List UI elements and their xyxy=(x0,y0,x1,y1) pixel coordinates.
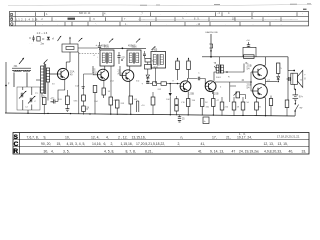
svg-text:10K: 10K xyxy=(166,99,170,101)
svg-text:1.: 1. xyxy=(46,12,48,16)
junction dots on rail xyxy=(27,113,28,114)
svg-text:8, 7, 8,: 8, 7, 8, xyxy=(126,149,136,153)
transistor Q3 xyxy=(122,70,134,82)
wire Q3 base xyxy=(120,66,122,76)
B plus rail wire xyxy=(202,56,288,58)
svg-text:12, 4,: 12, 4, xyxy=(91,135,100,139)
svg-text:sw: sw xyxy=(300,108,303,110)
svg-text:5001: 5001 xyxy=(216,77,222,79)
svg-text:2,: 2, xyxy=(111,142,114,146)
bias pot VR2 xyxy=(236,92,240,98)
legend capacitor symbol xyxy=(33,36,35,39)
battery B1 xyxy=(294,90,296,95)
transistor Q1 xyxy=(57,68,68,79)
driver transformer T5 xyxy=(218,65,220,74)
wire T1 secondary to Q1 base xyxy=(50,73,58,75)
resistor R11a xyxy=(175,99,178,105)
resistor R16 xyxy=(212,99,215,107)
transistor Q4 xyxy=(180,81,191,92)
svg-text:-: - xyxy=(253,12,254,15)
svg-text:41,: 41, xyxy=(201,142,206,146)
svg-text:4, 5, 8,: 4, 5, 8, xyxy=(104,149,114,153)
wire AGC box to C6 xyxy=(78,47,98,49)
variable capacitor C1a xyxy=(20,93,22,98)
oscillator coil T1 secondary winding xyxy=(46,68,49,82)
svg-text:6,: 6, xyxy=(104,142,107,146)
svg-text:24, 19,19,2w,: 24, 19,19,2w, xyxy=(239,149,259,153)
resistor R21 xyxy=(285,100,289,108)
dial scale row 3 marks xyxy=(34,22,36,26)
transistor Q7 xyxy=(253,84,268,99)
node terminal A xyxy=(5,85,7,87)
adjustment arrow T2 xyxy=(109,39,112,42)
capacitor C5 xyxy=(52,100,54,104)
wire osc coil tap xyxy=(26,73,28,88)
svg-text:2 , 12,: 2 , 12, xyxy=(118,135,127,139)
earphone jack J1 xyxy=(210,34,212,57)
wire output pair join xyxy=(264,78,266,86)
capacitor C17 under Q7 xyxy=(269,99,272,106)
volume wire row xyxy=(150,83,153,85)
capacitor C12 coupling xyxy=(153,82,157,86)
resistor R11b xyxy=(175,105,178,111)
svg-text:C: C xyxy=(14,141,19,148)
variable capacitor C1b xyxy=(29,98,31,103)
svg-text:90, 20,: 90, 20, xyxy=(41,142,51,146)
IF transformer T3 xyxy=(127,50,141,66)
ground symbol xyxy=(65,108,69,110)
wire Q3 emitter xyxy=(129,80,131,96)
detector diode D1 xyxy=(146,75,149,78)
svg-text:. . .: . . . xyxy=(81,11,85,14)
legend arrow symbol xyxy=(58,37,61,42)
capacitor C11 marks xyxy=(146,81,149,82)
thermistor box below rail xyxy=(203,117,209,124)
svg-text:. .: . . xyxy=(275,18,277,21)
svg-text:9,: 9, xyxy=(44,135,47,139)
resistor R8 with ground xyxy=(115,100,119,108)
svg-text:8 . 9 .: 8 . 9 . xyxy=(194,18,200,21)
wire driver row xyxy=(215,81,251,83)
svg-text:8,21,: 8,21, xyxy=(145,149,153,153)
resistor R15 xyxy=(201,99,204,107)
svg-text:15,: 15, xyxy=(57,142,62,146)
svg-text:. .: . . xyxy=(143,18,145,21)
resistor R19 xyxy=(244,55,255,59)
strip corner mark xyxy=(303,8,307,10)
capacitor C4b xyxy=(82,106,86,112)
svg-text:301: 301 xyxy=(14,65,19,68)
svg-text:1 , 3,: 1 , 3, xyxy=(239,132,246,136)
svg-text:41: 41 xyxy=(198,149,202,153)
wire bypass vertical xyxy=(83,74,85,95)
svg-text:1 .: 1 . xyxy=(125,23,128,26)
wire T1 to gang xyxy=(36,79,41,81)
svg-text:4,15, 3, 4, 5,: 4,15, 3, 4, 5, xyxy=(67,142,86,146)
svg-text:rf: rf xyxy=(52,37,54,41)
antenna arrow xyxy=(19,59,24,65)
transistor Q6 xyxy=(253,65,268,80)
AGC line wire xyxy=(100,47,146,49)
wire Q2 collector xyxy=(104,66,106,70)
wire T4 secondary down xyxy=(155,68,157,84)
wire switch to rail xyxy=(294,111,296,116)
resistor R12 with supply arrow xyxy=(176,61,180,70)
adjustment arrow T3 xyxy=(136,39,139,42)
oscillator coil T1 core xyxy=(43,64,45,94)
bias resistor row xyxy=(220,102,224,110)
svg-text:21,: 21, xyxy=(226,135,231,139)
wire output base rail xyxy=(251,72,253,91)
wire Q2 base xyxy=(93,66,97,75)
svg-text:. . .: . . . xyxy=(30,41,34,44)
page edge scan artifact xyxy=(8,4,312,5)
svg-text:n.: n. xyxy=(182,17,184,20)
shield dashed line xyxy=(79,53,99,55)
wire T5 to B plus corner xyxy=(224,64,245,73)
svg-text:10 .: 10 . xyxy=(232,17,236,20)
wire T5 primary to rail xyxy=(219,57,221,65)
ground marks xyxy=(82,86,85,88)
parts table frame xyxy=(13,133,309,155)
wire right rail down xyxy=(287,71,289,101)
oscillator coil T1 primary winding xyxy=(41,66,44,93)
capacitor C6 electrolytic xyxy=(99,42,101,46)
switch S1 xyxy=(295,103,297,105)
wire T1 bottom xyxy=(41,93,43,98)
resistor R14 xyxy=(187,99,190,107)
ferrite rod antenna L1 xyxy=(12,67,31,69)
svg-text:54: 54 xyxy=(247,86,250,90)
transistor Q5 xyxy=(205,81,216,92)
ground wire bottom rail xyxy=(5,113,295,116)
feedback capacitor C15 xyxy=(248,42,250,45)
svg-text:2SB: 2SB xyxy=(214,93,219,96)
wire Q5 emitter xyxy=(211,92,213,94)
svg-text:. -: . - xyxy=(280,23,282,26)
IF transformer T4 xyxy=(151,52,166,69)
capacitor C8 xyxy=(144,51,146,54)
svg-text:17,: 17, xyxy=(212,135,217,139)
resistor R4 inside AGC box xyxy=(66,47,74,50)
transistor Q2 xyxy=(97,69,108,80)
resistor series xyxy=(161,82,166,86)
wire Q6 collector to rail xyxy=(264,57,266,67)
wire Q7 emitter down xyxy=(264,97,266,116)
resistor R1 xyxy=(42,98,46,105)
svg-text:7 .: 7 . xyxy=(124,18,127,21)
resistor R7 xyxy=(109,97,113,105)
legend resistor symbol xyxy=(37,37,40,41)
svg-text:4 .: 4 . xyxy=(104,11,107,15)
IF transformer T2 xyxy=(100,50,114,66)
svg-text:12, 13,: 12, 13, xyxy=(264,142,274,146)
svg-text:17,20,5,21,5,18,22,: 17,20,5,21,5,18,22, xyxy=(136,142,165,146)
svg-text:4,: 4, xyxy=(51,149,54,153)
svg-text:7,6,7, 8,: 7,6,7, 8, xyxy=(27,135,39,139)
wire speaker bottom xyxy=(294,84,295,89)
svg-text:2w: 2w xyxy=(41,41,44,45)
svg-text:40,: 40, xyxy=(289,149,294,153)
svg-text:n,: n, xyxy=(181,135,184,139)
resistor R2 xyxy=(66,96,70,105)
resistor R6 xyxy=(82,95,86,101)
capacitor C16 electrolytic speaker xyxy=(287,77,289,81)
diode D3 xyxy=(277,77,280,80)
svg-text:R: R xyxy=(13,148,18,155)
svg-text:14,16,: 14,16, xyxy=(92,142,101,146)
svg-text:10,: 10, xyxy=(65,135,70,139)
resistor R9b xyxy=(151,97,155,105)
svg-text:33,: 33, xyxy=(302,149,307,153)
adjust arrow NE xyxy=(79,39,82,42)
svg-text:455KC: 455KC xyxy=(128,45,136,48)
svg-text:- 12: - 12 xyxy=(196,23,201,26)
svg-text:4,9,8,20,33,: 4,9,8,20,33, xyxy=(264,149,282,153)
resistor R5 xyxy=(102,88,105,95)
wire left edge down xyxy=(5,62,7,113)
diode D2 xyxy=(169,93,172,96)
resistor R5b xyxy=(93,86,97,93)
wire Q2 emitter xyxy=(103,80,105,88)
svg-text:4,: 4, xyxy=(106,135,109,139)
svg-text:30,: 30, xyxy=(44,149,49,153)
svg-text:1,15,16,: 1,15,16, xyxy=(121,142,133,146)
svg-text:47: 47 xyxy=(232,149,236,153)
volume control VR1 branch xyxy=(169,84,171,93)
resistor R10a xyxy=(145,59,151,63)
svg-text:1.0 -- 1.6: 1.0 -- 1.6 xyxy=(37,31,48,35)
svg-text:EARPHONE: EARPHONE xyxy=(206,31,219,34)
trimmer arrow to AGC box xyxy=(69,38,71,45)
resistor R10b xyxy=(145,65,152,70)
svg-text:9, 14, 13,: 9, 14, 13, xyxy=(210,149,224,153)
legend diode symbol xyxy=(47,37,50,40)
svg-text:3011: 3011 xyxy=(153,67,158,69)
resistor R20 xyxy=(277,63,280,74)
svg-text:S: S xyxy=(14,134,19,141)
svg-text:9V+: 9V+ xyxy=(299,96,304,98)
svg-text:-: - xyxy=(302,12,303,15)
wire Q4 collector to Q5 base xyxy=(187,79,197,82)
capacitor C14 interstage xyxy=(197,77,199,81)
wire Q3 collector xyxy=(129,66,131,71)
wire Q1 emitter xyxy=(58,79,65,102)
wire antenna coil to gang xyxy=(13,73,15,88)
capacitor C10 vertical pair xyxy=(135,101,137,112)
svg-text:3, 5,: 3, 5, xyxy=(63,149,70,153)
capacitor C13 to ground below rail xyxy=(178,116,181,118)
wire Q1 collector to T2 xyxy=(65,62,67,69)
svg-text:47K: 47K xyxy=(114,100,118,102)
svg-text:- .: - . xyxy=(95,23,97,26)
resistor R9 xyxy=(129,96,133,104)
speaker SP xyxy=(291,73,298,84)
trimmer arrow on T1 xyxy=(44,60,48,64)
svg-text:. .: . . xyxy=(252,23,254,26)
svg-text:. .: . . xyxy=(55,18,57,21)
svg-text:17,18,19,20,21,22,: 17,18,19,20,21,22, xyxy=(277,134,300,138)
capacitor C7 xyxy=(118,52,120,56)
AGC filter box xyxy=(62,44,78,52)
wire T5 secondary to Q5 xyxy=(214,72,216,81)
svg-text:2SB: 2SB xyxy=(190,93,195,96)
svg-text:13,15,16,: 13,15,16, xyxy=(132,135,146,139)
wire T2 bottom to R7 xyxy=(110,66,112,97)
feedback loop wire xyxy=(243,47,256,57)
resistor R13 with supply arrow xyxy=(187,61,191,70)
wire stack vertical xyxy=(147,62,149,65)
svg-text:-: - xyxy=(42,23,43,26)
wire gang to rail xyxy=(27,110,29,114)
alignment table frame xyxy=(10,12,309,26)
wire AVC vertical xyxy=(78,52,80,107)
svg-text:54: 54 xyxy=(247,67,250,71)
adjustment arrow T4 xyxy=(152,47,155,50)
svg-text:455KC: 455KC xyxy=(101,45,109,48)
svg-text:13, 15,: 13, 15, xyxy=(278,142,288,146)
tuning gang box C1 C2 xyxy=(17,87,40,110)
wire rail to speaker node xyxy=(288,70,294,72)
svg-text:. .: . . xyxy=(290,17,292,20)
svg-text:2,: 2, xyxy=(178,142,181,146)
